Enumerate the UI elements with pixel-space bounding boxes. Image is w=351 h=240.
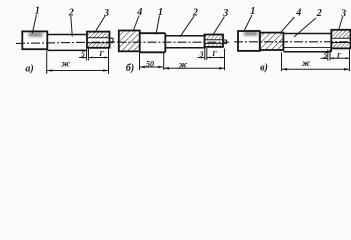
svg-text:Γ: Γ (98, 49, 104, 58)
svg-text:2: 2 (316, 8, 322, 19)
svg-text:а): а) (25, 64, 33, 75)
svg-text:3: 3 (340, 9, 346, 20)
svg-text:1: 1 (35, 6, 40, 17)
svg-text:ж: ж (179, 60, 188, 70)
svg-text:2: 2 (192, 8, 198, 19)
svg-text:3: 3 (103, 8, 109, 19)
svg-text:ж: ж (302, 58, 311, 68)
svg-text:б): б) (126, 63, 134, 74)
svg-text:3: 3 (222, 8, 228, 19)
svg-text:ж: ж (61, 59, 70, 69)
svg-text:Γ: Γ (336, 51, 342, 60)
svg-text:5: 5 (81, 50, 85, 59)
svg-text:50: 50 (146, 60, 154, 69)
svg-text:в): в) (260, 63, 268, 74)
svg-text:1: 1 (250, 6, 255, 17)
svg-text:Γ: Γ (211, 49, 217, 58)
svg-text:3: 3 (199, 49, 204, 58)
svg-text:4: 4 (295, 7, 301, 18)
svg-text:1: 1 (158, 7, 163, 18)
svg-text:4: 4 (136, 7, 142, 18)
svg-text:5: 5 (324, 51, 328, 60)
svg-text:2: 2 (68, 7, 74, 18)
